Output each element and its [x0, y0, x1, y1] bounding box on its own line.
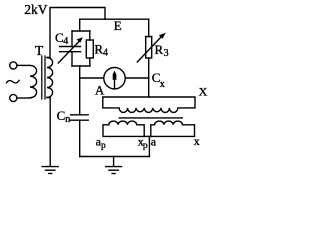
wire secondary bottom lead to ground	[47, 98, 50, 167]
wire junction xp-a to ground bus	[148, 136, 150, 156]
node E	[114, 18, 122, 33]
svg-text:X: X	[199, 84, 208, 98]
transformer T primary terminal top	[10, 62, 17, 69]
wire secondary top lead	[47, 57, 50, 59]
svg-text:C: C	[57, 108, 66, 123]
svg-text:4: 4	[63, 36, 68, 47]
wire R4 top lead	[89, 31, 91, 40]
wire node Cx down to winding A-X	[148, 78, 150, 97]
terminal x label	[194, 134, 200, 148]
node Cx label	[152, 70, 165, 90]
wire C4/R4 parallel block top bar	[72, 30, 90, 32]
wire block bottom to Cn	[79, 66, 81, 115]
transformer T core	[41, 56, 43, 99]
winding ap-xp (secondary left)	[103, 121, 144, 136]
wire terminal bottom to primary	[17, 97, 30, 99]
wire C4/R4 parallel block bottom bar	[72, 65, 90, 67]
wire R3 bottom to node Cx	[148, 58, 150, 78]
svg-text:x: x	[160, 79, 165, 90]
wire galvanometer to node Cx	[125, 77, 149, 79]
terminal ap label	[96, 134, 106, 151]
terminal xp label	[138, 134, 148, 151]
galvanometer G	[104, 68, 125, 89]
svg-text:p: p	[143, 141, 148, 151]
AC source symbol	[6, 80, 19, 83]
label T	[35, 43, 44, 58]
label Cn	[57, 108, 72, 125]
svg-text:x: x	[194, 134, 200, 148]
svg-text:n: n	[65, 114, 71, 125]
node A label	[95, 82, 105, 97]
wire C4 top lead	[71, 31, 73, 47]
core separator line	[119, 117, 182, 119]
transformer T primary winding	[30, 65, 37, 97]
transformer T primary terminal bottom	[10, 94, 17, 101]
svg-text:T: T	[35, 43, 44, 58]
wire E to C4/R4 block top	[79, 19, 81, 31]
wire top-left corner from transformer secondary to node E	[50, 8, 105, 58]
svg-text:3: 3	[164, 48, 169, 59]
capacitor Cn	[71, 114, 89, 116]
capacitor C4 (variable)	[60, 46, 81, 48]
terminal a label	[151, 134, 157, 148]
wire terminal top to primary	[17, 64, 30, 66]
wire bridge between xp and a	[144, 135, 151, 137]
wire R4 bottom lead	[89, 58, 91, 66]
transformer T secondary winding	[47, 58, 53, 98]
label R4	[94, 42, 108, 59]
ground symbol left	[42, 166, 58, 168]
resistor R4	[86, 40, 93, 58]
wire branch to galvanometer	[80, 77, 104, 79]
wire E to R3 top	[148, 19, 150, 37]
label 2kV	[24, 2, 48, 17]
svg-text:4: 4	[103, 48, 108, 59]
wire Cn bottom to ground bus	[79, 120, 81, 156]
svg-text:p: p	[101, 141, 106, 151]
resistor R3 (variable)	[146, 37, 152, 59]
label R3	[155, 42, 169, 59]
svg-text:E: E	[114, 18, 122, 33]
svg-text:A: A	[95, 82, 105, 97]
node X label	[199, 84, 208, 98]
svg-text:a: a	[151, 134, 157, 148]
svg-text:R: R	[155, 42, 164, 57]
wire ground bus horizontal	[80, 156, 150, 158]
wire C4 bottom lead	[71, 52, 73, 66]
label C4	[55, 30, 68, 47]
winding A-X (HV standard transformer primary)	[103, 97, 195, 112]
wire node E horizontal	[80, 18, 149, 20]
svg-text:2kV: 2kV	[24, 2, 48, 17]
winding a-x (secondary right)	[151, 121, 195, 136]
ground symbol right	[113, 157, 115, 167]
